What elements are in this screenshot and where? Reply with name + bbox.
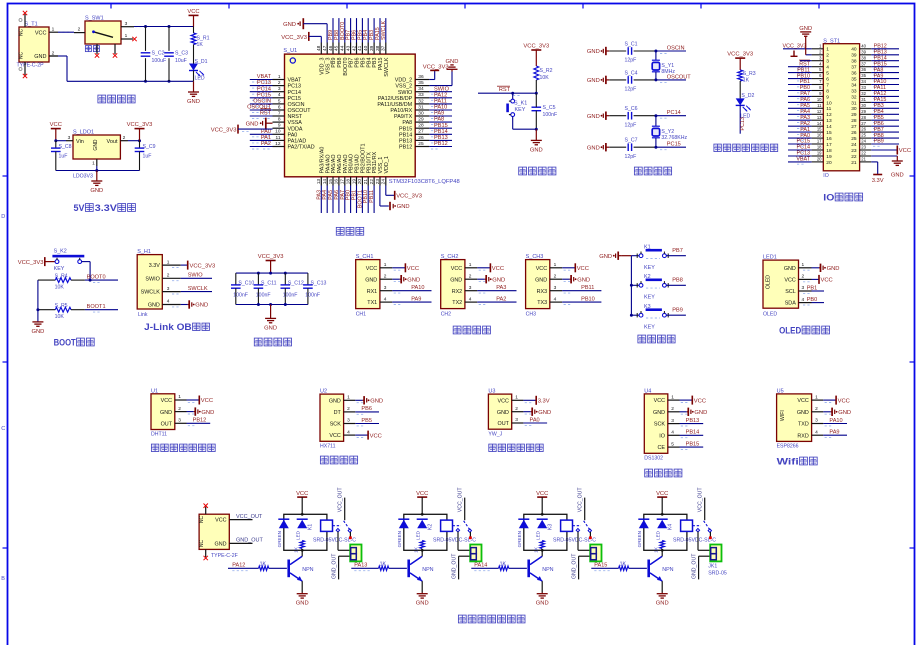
- svg-text:PB1: PB1: [807, 285, 818, 291]
- svg-text:VCC_3V3: VCC_3V3: [211, 127, 237, 133]
- svg-text:PA9: PA9: [434, 111, 444, 117]
- relay NC stub 4: [709, 532, 711, 538]
- svg-text:1K: 1K: [534, 546, 540, 553]
- svg-text:48: 48: [316, 45, 322, 51]
- svg-text:4: 4: [469, 296, 472, 302]
- pin 5 of U1 OSCIN: [273, 103, 285, 105]
- svg-text:28: 28: [851, 118, 857, 124]
- ground GND U1: [187, 411, 194, 413]
- svg-text:S_C12: S_C12: [288, 280, 304, 286]
- wire filter bottom rail: [236, 304, 308, 306]
- svg-text:PC14: PC14: [257, 86, 271, 92]
- svg-text:RST: RST: [260, 111, 272, 117]
- svg-text:100uF: 100uF: [152, 58, 167, 64]
- svg-text:VCC: VCC: [187, 9, 199, 15]
- svg-text:SWIO: SWIO: [145, 276, 159, 282]
- svg-text:OSCOUT: OSCOUT: [667, 74, 692, 80]
- svg-text:SWCLK: SWCLK: [381, 20, 387, 40]
- wire node PB10 S_CH3: [562, 301, 601, 303]
- svg-text:VCC: VCC: [35, 30, 47, 36]
- crystal S_Y1 8MHz: [654, 50, 657, 53]
- svg-text:SDA: SDA: [785, 301, 796, 307]
- pin 7 of S_ST1: [812, 84, 824, 86]
- svg-text:KEY: KEY: [515, 107, 526, 113]
- wire net PA12 io-right: [871, 95, 899, 97]
- power port VCC_3V3 ldo out: [135, 128, 145, 130]
- power port VCC_3V3 at VDD_2: [429, 79, 434, 81]
- relay contact armature 2: [453, 525, 462, 527]
- svg-text:12pF: 12pF: [625, 122, 637, 128]
- svg-text:1: 1: [469, 262, 472, 268]
- ground GND reset: [535, 128, 538, 131]
- svg-text:GND: GND: [450, 277, 462, 283]
- pin 46 of U1 PB9: [332, 43, 334, 55]
- pin 17 of U1 PA7/AO: [344, 177, 346, 186]
- svg-text:PA0: PA0: [288, 132, 298, 138]
- pin 2 of S_T1: [49, 55, 58, 57]
- svg-text:40: 40: [851, 47, 857, 53]
- svg-text:HX711: HX711: [320, 444, 336, 450]
- svg-text:1: 1: [125, 33, 128, 39]
- svg-text:GND: GND: [538, 410, 551, 416]
- svg-text:VCC: VCC: [201, 398, 213, 404]
- svg-text:PB13: PB13: [399, 139, 412, 145]
- power port VCC_3V3 at VDD_1: [385, 186, 387, 196]
- pin 1 of S_H1 3.3V: [162, 264, 180, 266]
- svg-text:3: 3: [815, 418, 818, 424]
- pin 42 of U1 PB6: [356, 43, 358, 55]
- ground GND S_CH3: [562, 278, 569, 280]
- svg-text:35: 35: [861, 73, 866, 78]
- wire net PA4 io-left: [788, 113, 812, 115]
- title filter circuit: [254, 338, 262, 346]
- pin 1 of S_CH3 VCC: [550, 267, 562, 269]
- wire relay NO to terminal 2: [457, 532, 459, 551]
- svg-text:15: 15: [826, 130, 832, 136]
- wire node PA0 U3: [523, 422, 547, 424]
- svg-text:19: 19: [351, 179, 357, 185]
- svg-text:VCC: VCC: [797, 398, 808, 404]
- svg-text:34: 34: [851, 82, 857, 88]
- svg-text:20: 20: [817, 157, 822, 162]
- svg-text:VCC: VCC: [161, 398, 172, 404]
- svg-text:1: 1: [278, 74, 281, 80]
- svg-text:12pF: 12pF: [625, 154, 637, 160]
- svg-text:5: 5: [671, 441, 674, 447]
- svg-text:OLED: OLED: [763, 312, 777, 318]
- wire net PB3 top: [373, 18, 375, 42]
- wire VDDA: [238, 128, 273, 130]
- svg-text:DT: DT: [334, 410, 342, 416]
- bottom pins of S_SW1 no-connect: [96, 44, 98, 54]
- wire net PB11 bottom: [373, 186, 375, 214]
- push button S_K1 KEY: [512, 93, 514, 99]
- svg-text:JK1: JK1: [708, 564, 717, 570]
- wire emitter to ground relay 1: [301, 581, 303, 592]
- wire net PB12 io-right: [871, 48, 899, 50]
- wire key trunk: [630, 256, 632, 316]
- power port VCC: [189, 14, 199, 16]
- pin 17 of S_ST1: [812, 143, 824, 145]
- svg-text:33: 33: [851, 88, 857, 94]
- wire net PB7 io-right: [871, 131, 899, 133]
- svg-text:10: 10: [275, 129, 281, 135]
- svg-text:PA1/AD: PA1/AD: [288, 139, 307, 145]
- svg-text:1: 1: [347, 395, 350, 401]
- svg-text:NPN: NPN: [422, 567, 433, 573]
- svg-text:11: 11: [276, 135, 281, 141]
- svg-text:S_R3: S_R3: [743, 71, 756, 77]
- svg-text:BOOT: BOOT: [54, 337, 76, 347]
- transistor NPN Q4: [647, 560, 650, 578]
- svg-text:NC: NC: [199, 540, 205, 548]
- wire net OSCOUT: [656, 79, 686, 81]
- svg-text:S_C5: S_C5: [543, 105, 556, 111]
- wire net PC13: [250, 85, 273, 87]
- title liquid level module: [489, 444, 496, 451]
- svg-text:14: 14: [826, 124, 832, 130]
- svg-text:31: 31: [861, 97, 866, 102]
- svg-text:RST: RST: [499, 87, 511, 93]
- pin 18 of S_ST1: [812, 149, 824, 151]
- svg-text:2: 2: [347, 406, 350, 412]
- wire net PC15 io-left: [788, 143, 812, 145]
- svg-text:K4: K4: [668, 524, 674, 530]
- svg-text:10uF: 10uF: [175, 58, 187, 64]
- pin 1 of S_CH1 VCC: [380, 267, 392, 269]
- wire net PA7 bottom: [344, 186, 346, 214]
- wire net PA12: [429, 97, 452, 99]
- wire collector relay 2: [421, 550, 423, 556]
- pin 1 of LED1 GND: [799, 267, 812, 269]
- svg-text:VCC_3V3: VCC_3V3: [190, 263, 216, 269]
- wire filter top rail: [236, 272, 308, 274]
- svg-text:24: 24: [861, 139, 866, 144]
- ground GND U3: [523, 411, 530, 413]
- svg-text:OLED: OLED: [766, 275, 772, 289]
- resistor S_R3 1K: [738, 70, 743, 81]
- pin 37 of S_ST1: [860, 66, 872, 68]
- svg-text:12: 12: [275, 141, 281, 147]
- svg-text:PA10: PA10: [411, 285, 424, 291]
- pin VCC of TYPE-C-2F wire node VCC_OUT: [229, 519, 252, 521]
- svg-text:4: 4: [826, 65, 829, 71]
- svg-text:VSS_2: VSS_2: [395, 84, 412, 90]
- svg-text:SCK: SCK: [654, 422, 665, 428]
- pin 31 of U1 PA10/RX: [415, 109, 429, 111]
- wire net PB4 top: [367, 18, 369, 42]
- svg-text:1: 1: [815, 394, 818, 400]
- svg-text:GND: GND: [93, 139, 99, 151]
- svg-text:19: 19: [826, 154, 832, 160]
- terminal block JK relay 2: [470, 545, 481, 562]
- wire emitter to ground relay 4: [661, 581, 663, 592]
- svg-text:34: 34: [418, 86, 424, 92]
- pin 14 of S_ST1: [812, 125, 824, 127]
- svg-text:GND_OUT: GND_OUT: [452, 553, 458, 579]
- svg-text:41: 41: [357, 45, 363, 51]
- title key circuit: [638, 335, 646, 343]
- svg-text:GND_OUT: GND_OUT: [236, 538, 264, 544]
- wire node PB8: [666, 284, 686, 286]
- svg-text:9: 9: [826, 94, 829, 100]
- svg-text:VCC_3V3: VCC_3V3: [783, 43, 807, 49]
- relay NC stub 1: [349, 532, 351, 538]
- svg-text:36: 36: [861, 67, 866, 72]
- power port VCC U4: [680, 399, 693, 401]
- svg-text:4: 4: [554, 296, 557, 302]
- svg-text:K3: K3: [548, 524, 554, 530]
- pin 23 of U1 VSS_1: [379, 177, 381, 186]
- pin 3 of S_SW1: [121, 26, 134, 28]
- pin 4 of S_ST1: [812, 66, 824, 68]
- wire node PB9: [666, 314, 686, 316]
- svg-text:31: 31: [418, 104, 424, 110]
- svg-text:46: 46: [328, 45, 334, 51]
- svg-text:GND: GND: [148, 303, 160, 309]
- svg-text:35: 35: [851, 77, 857, 83]
- svg-text:2: 2: [167, 273, 170, 279]
- svg-text:KEY: KEY: [644, 295, 655, 301]
- svg-text:GND: GND: [497, 410, 509, 416]
- svg-text:PA14: PA14: [474, 562, 487, 568]
- svg-text:39: 39: [369, 45, 375, 51]
- pin 3 of S_H1 SWCLK: [162, 291, 180, 293]
- svg-text:KEY: KEY: [644, 265, 655, 271]
- wire net PB13: [429, 139, 452, 141]
- svg-text:J-Link OB: J-Link OB: [144, 322, 192, 332]
- svg-text:VCC: VCC: [536, 491, 548, 497]
- svg-text:Link: Link: [138, 312, 148, 318]
- svg-text:VCC_OUT: VCC_OUT: [578, 487, 584, 513]
- pin 2 of S_LDO1: [120, 140, 128, 142]
- title crystal circuit: [634, 167, 642, 175]
- svg-text:GND: GND: [397, 204, 410, 210]
- svg-text:100nF: 100nF: [233, 293, 248, 299]
- svg-text:26: 26: [851, 130, 857, 136]
- wire node PA10 S_CH1: [392, 290, 431, 292]
- svg-text:OUT: OUT: [498, 421, 510, 427]
- wire node PB6 U2: [355, 411, 379, 413]
- svg-text:1uF: 1uF: [59, 154, 68, 160]
- capacitor S_C9 1uF: [139, 141, 141, 148]
- svg-text:PA2/TX/AD: PA2/TX/AD: [288, 145, 315, 151]
- svg-text:S_R2: S_R2: [540, 68, 553, 74]
- svg-text:3.3V: 3.3V: [149, 263, 160, 269]
- svg-text:11: 11: [817, 103, 822, 108]
- wire VCC_OUT relay 3: [584, 498, 586, 521]
- wire GND rail power circuit: [49, 55, 58, 57]
- pin 31 of S_ST1: [860, 101, 872, 103]
- svg-text:PA8: PA8: [434, 117, 444, 123]
- svg-text:22: 22: [369, 179, 375, 185]
- capacitor S_C5 100nF: [532, 106, 542, 108]
- svg-text:PC15: PC15: [288, 96, 302, 102]
- pin 11 of U1 PA1/AD: [273, 139, 285, 141]
- svg-text:VCC: VCC: [498, 398, 509, 404]
- wire node PB0 oled: [812, 302, 825, 304]
- svg-text:PA0: PA0: [261, 129, 271, 135]
- svg-text:GND: GND: [329, 398, 341, 404]
- svg-text:PB13: PB13: [434, 135, 448, 141]
- wire net PB10 bottom: [367, 186, 369, 214]
- ground GND oled: [812, 267, 820, 269]
- pin 24 of U1 VDD_1: [385, 177, 387, 186]
- pin 16 of U1 PA6/AO: [338, 177, 340, 186]
- ground GND relay 1: [301, 593, 303, 594]
- svg-text:23: 23: [375, 179, 381, 185]
- wire net OSCIN: [656, 50, 686, 52]
- svg-text:14: 14: [322, 179, 328, 185]
- svg-text:C: C: [1, 426, 5, 432]
- svg-text:VCC_3V3: VCC_3V3: [523, 44, 549, 50]
- svg-text:3.3V: 3.3V: [538, 399, 550, 405]
- svg-text:1K: 1K: [743, 78, 750, 84]
- svg-text:OSCIN: OSCIN: [667, 46, 685, 52]
- svg-text:PA1: PA1: [261, 135, 271, 141]
- svg-text:32: 32: [851, 94, 857, 100]
- pin 18 of U1 PB0/AO: [350, 177, 352, 186]
- pin 37 of U1 SWCLK: [385, 43, 387, 55]
- svg-text:4: 4: [815, 429, 818, 435]
- svg-text:42: 42: [351, 45, 357, 51]
- wire net PA7 io-left: [788, 95, 812, 97]
- svg-text:S_K2: S_K2: [54, 249, 67, 255]
- svg-text:GND: GND: [838, 410, 851, 416]
- pin 3 of S_CH1 RX1: [380, 290, 392, 292]
- wire node RST: [478, 92, 536, 94]
- wire net VBAT: [250, 79, 273, 81]
- wire relay frame 2: [404, 514, 447, 550]
- power port VCC oled: [812, 278, 820, 280]
- svg-text:S_C9: S_C9: [143, 144, 156, 150]
- svg-text:WIFI: WIFI: [780, 410, 786, 421]
- svg-text:BOOT1: BOOT1: [87, 304, 106, 310]
- svg-text:26: 26: [418, 135, 424, 141]
- svg-text:23: 23: [851, 148, 857, 154]
- svg-text:3: 3: [469, 285, 472, 291]
- svg-text:CH3: CH3: [526, 311, 536, 317]
- crystal S_Y2 32.768KHz: [654, 114, 657, 117]
- svg-text:22: 22: [851, 154, 857, 160]
- pin 28 of S_ST1: [860, 119, 872, 121]
- title program run indicator: [714, 144, 721, 151]
- svg-text:TXD: TXD: [798, 422, 809, 428]
- pin 41 of U1 PB5: [361, 43, 363, 55]
- svg-text:23: 23: [861, 145, 866, 150]
- svg-text:3: 3: [125, 21, 128, 27]
- wire node BOOT0: [85, 279, 118, 281]
- pin 30 of U1 PA9/TX: [415, 115, 429, 117]
- pin 19 of U1 PB1/AD: [356, 177, 358, 186]
- wire net PB15 io-right: [871, 66, 899, 68]
- wire boot left trunk: [37, 280, 39, 322]
- svg-text:PA13: PA13: [354, 562, 367, 568]
- pin 23 of S_ST1: [860, 149, 872, 151]
- svg-text:PA12/USB/DP: PA12/USB/DP: [378, 96, 413, 102]
- svg-text:1: 1: [167, 259, 170, 265]
- svg-text:VCC: VCC: [366, 266, 377, 272]
- terminal block JK relay 1: [350, 545, 361, 562]
- svg-text:OUT: OUT: [161, 421, 173, 427]
- wire net PB5 io-right: [871, 119, 899, 121]
- svg-text:2: 2: [815, 406, 818, 412]
- svg-text:PC15: PC15: [257, 92, 271, 98]
- wire node PA14 base drive 3: [471, 567, 498, 569]
- svg-text:21: 21: [851, 160, 857, 166]
- power port VCC S_CH3: [562, 267, 575, 269]
- svg-text:S_K1: S_K1: [514, 100, 527, 106]
- pin 1 of U4 VCC: [668, 399, 680, 401]
- svg-text:2: 2: [78, 27, 81, 33]
- svg-text:ESP8266: ESP8266: [777, 444, 799, 450]
- wire net OSCIN: [250, 103, 273, 105]
- pin 1 of U5 VCC: [812, 399, 824, 401]
- wire net PA8 io-right: [871, 72, 899, 74]
- pin 2 of S_CH1 GND: [380, 278, 392, 280]
- ground GND U5: [823, 411, 830, 413]
- svg-text:GND: GND: [535, 277, 547, 283]
- pin GND of TYPE-C-2F wire node GND_OUT: [229, 542, 252, 544]
- wire VCC_OUT relay 2: [464, 498, 466, 521]
- pin 30 of S_ST1: [860, 107, 872, 109]
- svg-text:32: 32: [418, 98, 424, 104]
- wire emitter to ground relay 2: [421, 581, 423, 592]
- svg-text:PA2: PA2: [261, 141, 271, 147]
- pin 1 of S_T1: [49, 31, 58, 33]
- svg-text:Vout: Vout: [106, 139, 117, 145]
- wire net PA1: [250, 139, 273, 141]
- svg-text:15: 15: [328, 179, 334, 185]
- wire net PA10: [429, 109, 452, 111]
- svg-text:4: 4: [671, 430, 674, 436]
- svg-text:5: 5: [278, 98, 281, 104]
- svg-text:PA8: PA8: [402, 120, 412, 126]
- svg-text:NPN: NPN: [662, 567, 673, 573]
- svg-text:RX1: RX1: [367, 289, 378, 295]
- svg-text:35: 35: [418, 80, 424, 86]
- svg-text:VCC: VCC: [654, 398, 665, 404]
- svg-text:VDD_2: VDD_2: [395, 78, 412, 84]
- svg-text:PB6: PB6: [361, 406, 372, 412]
- svg-text:RXD: RXD: [797, 433, 808, 439]
- svg-text:VCC_OUT: VCC_OUT: [458, 487, 464, 513]
- wire relay frame 4: [644, 514, 687, 550]
- svg-text:PB15: PB15: [434, 123, 448, 129]
- svg-text:GND: GND: [365, 277, 377, 283]
- wire node PA9 S_CH1: [392, 301, 431, 303]
- pin 36 of S_ST1: [860, 72, 872, 74]
- wire net PB5 top: [361, 18, 363, 42]
- svg-text:PA3: PA3: [496, 285, 506, 291]
- svg-text:4: 4: [384, 296, 387, 302]
- wire net PA3 io-left: [788, 119, 812, 121]
- svg-text:OLED: OLED: [779, 325, 801, 335]
- pin 2 of U5 GND: [812, 411, 824, 413]
- resistor S_R2 10K: [534, 66, 539, 80]
- svg-text:Vin: Vin: [76, 139, 84, 145]
- wire node PB11 S_CH3: [562, 290, 601, 292]
- svg-text:S_C8: S_C8: [59, 144, 72, 150]
- svg-text:100nF: 100nF: [305, 293, 320, 299]
- power port VCC_3V3 io pin1: [783, 48, 812, 50]
- wire net PB13 io-right: [871, 54, 899, 56]
- svg-text:GND: GND: [799, 26, 812, 32]
- svg-text:1K: 1K: [654, 546, 660, 553]
- svg-text:VCC_OUT: VCC_OUT: [698, 487, 704, 513]
- wire net PB8 io-right: [871, 137, 899, 139]
- svg-text:LED: LED: [195, 76, 205, 82]
